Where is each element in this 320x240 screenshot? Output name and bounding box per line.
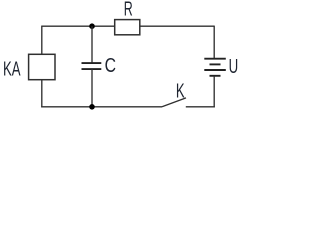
relay coil KA [29,54,55,79]
wire top horizontal [42,25,215,27]
svg-text:C: C [105,54,117,77]
wire bottom left horizontal [41,106,162,108]
svg-text:R: R [124,0,133,21]
capacitor C [82,63,102,69]
wire capacitor branch lower [91,69,93,107]
wire right branch vertical lower [213,76,215,108]
node junction dot top [89,23,95,29]
switch K blade [162,98,186,107]
node junction dot bottom [89,104,95,110]
wire left branch vertical [41,26,43,55]
svg-text:U: U [229,55,239,78]
svg-text:KA: KA [3,57,21,80]
wire capacitor branch upper [91,26,93,63]
wire right branch vertical upper [213,26,215,59]
svg-text:K: K [176,79,185,102]
wire below relay coil [41,80,43,108]
resistor R [115,20,140,35]
wire bottom right horizontal [186,106,215,108]
battery U [204,59,226,76]
